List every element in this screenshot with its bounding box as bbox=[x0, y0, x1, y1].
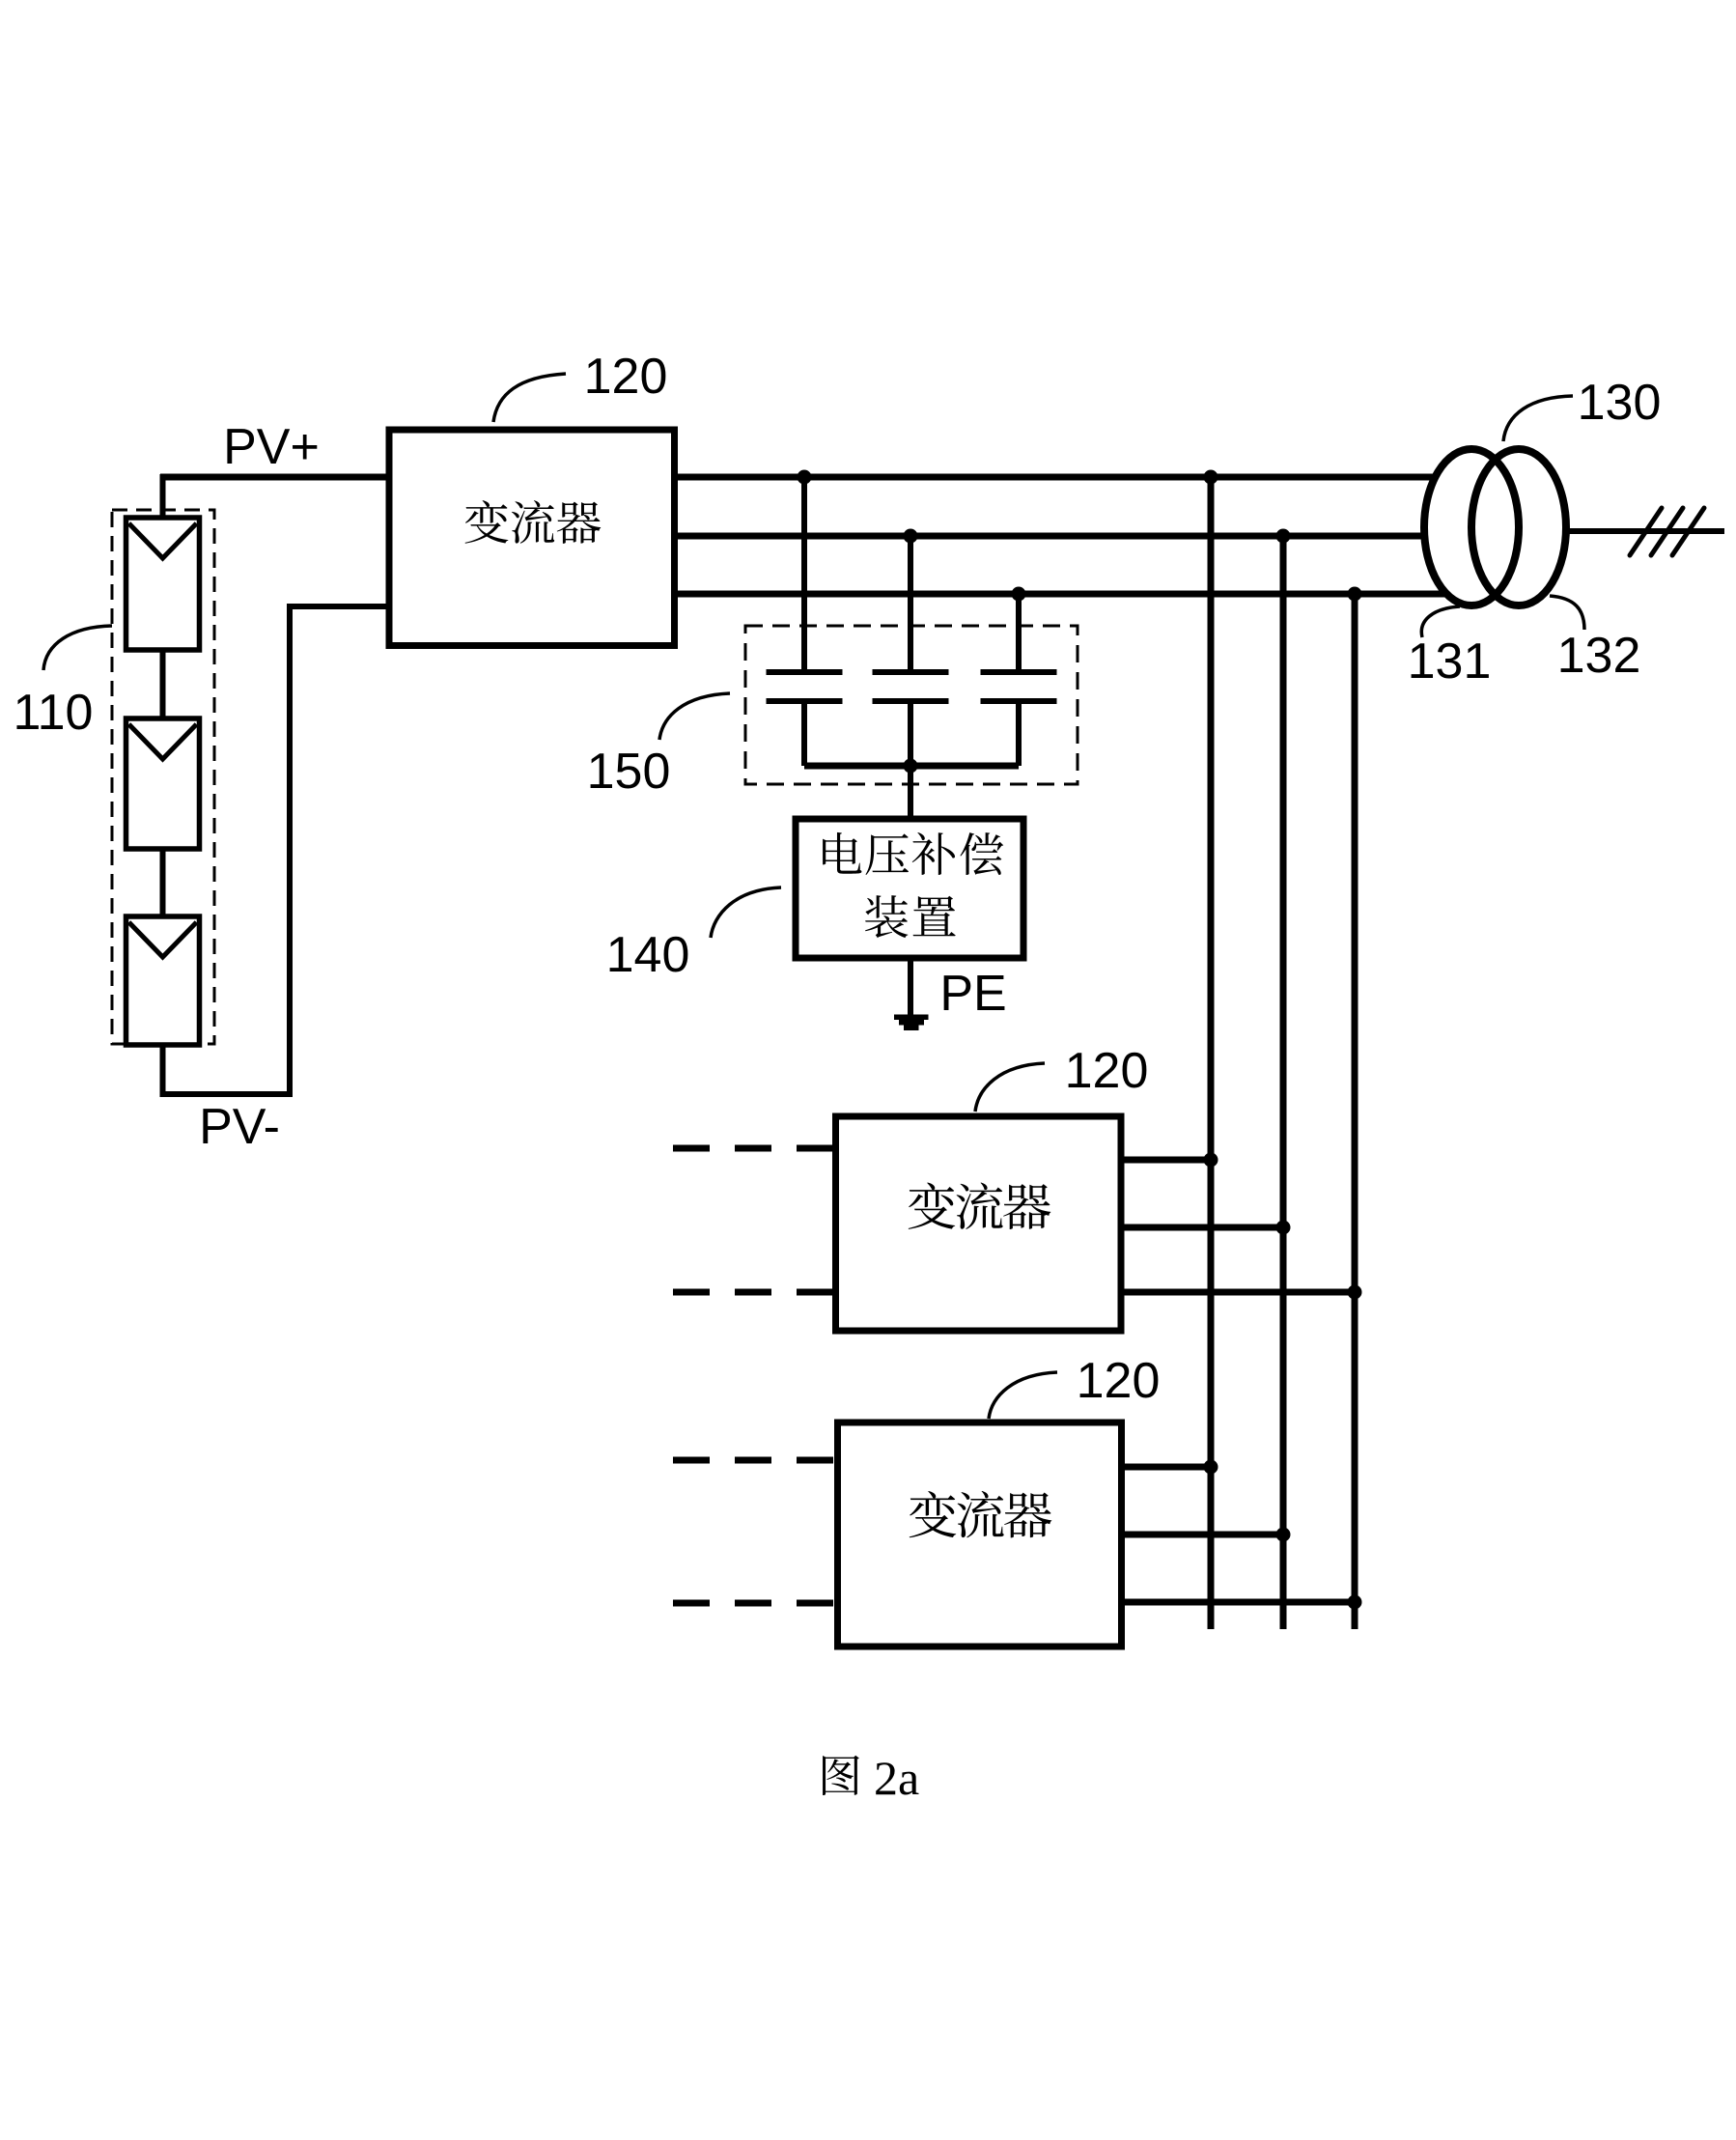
wire: grid output line after transformer bbox=[1519, 528, 1724, 534]
leader arc to label 120 (U2) bbox=[975, 1063, 1045, 1112]
converter U2 text 变流器 bbox=[909, 1183, 955, 1229]
transformer 130 secondary winding 132 bbox=[1471, 449, 1566, 605]
svg-text:130: 130 bbox=[1578, 375, 1662, 431]
caption 图 bbox=[823, 1756, 859, 1795]
voltage compensation device box 140 bbox=[796, 819, 1023, 958]
wire: capacitor C2 bottom lead bbox=[908, 701, 913, 766]
PV cell 2 chevron bbox=[129, 724, 197, 759]
leader arc to label 120 (U3) bbox=[989, 1372, 1057, 1419]
svg-text:PV+: PV+ bbox=[223, 419, 320, 475]
node junction dot 8 bbox=[1204, 1153, 1218, 1168]
node junction dot 4 bbox=[1204, 470, 1218, 485]
leader arc to label 110 bbox=[43, 626, 112, 670]
wire: capacitor common bottom bus bbox=[804, 763, 1019, 770]
leader arc to label 130 bbox=[1503, 396, 1573, 441]
svg-text:110: 110 bbox=[14, 685, 94, 741]
svg-text:120: 120 bbox=[1065, 1043, 1149, 1099]
grid triple-slash symbol bbox=[1630, 508, 1704, 555]
node junction dot 2 bbox=[904, 529, 918, 544]
node junction dot 12 bbox=[1276, 1528, 1291, 1542]
wire: converter3 output stub a bbox=[1120, 1464, 1211, 1471]
node junction dot 9 bbox=[1276, 1221, 1291, 1235]
PV cell 1 chevron bbox=[129, 523, 197, 558]
compensation device text line1 电压补偿 bbox=[823, 832, 861, 874]
node junction dot 6 bbox=[1348, 587, 1362, 602]
transformer 130 winding masks bbox=[1424, 449, 1519, 605]
node junction dot 3 bbox=[1012, 587, 1026, 602]
wire: PV string inter-cell link 2 bbox=[160, 849, 166, 916]
svg-text:150: 150 bbox=[587, 744, 671, 800]
converter U3 box (120) bbox=[838, 1422, 1122, 1647]
node junction dot 1 bbox=[798, 470, 812, 485]
wire: converter2 output stub c bbox=[1120, 1289, 1355, 1296]
wire: capacitor C1 top lead bbox=[801, 477, 807, 670]
PE ground symbol bbox=[894, 1015, 929, 1031]
wire: PE ground lead bbox=[908, 954, 913, 1015]
wire: converter3 dashed DC input 2 bbox=[673, 1600, 835, 1607]
svg-text:PE: PE bbox=[939, 966, 1006, 1022]
wire: converter3 output stub c bbox=[1120, 1599, 1355, 1606]
node junction dot 11 bbox=[1204, 1460, 1218, 1475]
wire: PV- return path bbox=[163, 606, 390, 1094]
PV cell 2 body bbox=[126, 718, 200, 849]
converter U2 box (120) bbox=[836, 1116, 1122, 1331]
leader arc to label 120 (U1) bbox=[493, 374, 566, 422]
svg-text:120: 120 bbox=[584, 349, 668, 405]
PV string 110 dashed outline bbox=[112, 510, 214, 1044]
transformer 130 primary winding 131 bbox=[1424, 449, 1519, 605]
wire: vertical bus V2 bbox=[1280, 536, 1287, 1629]
wire: AC bus line L1 (top phase) bbox=[160, 474, 1471, 481]
wire: converter3 output stub b bbox=[1120, 1532, 1283, 1538]
PV cell 1 body bbox=[126, 518, 200, 650]
converter U1 box (120) bbox=[389, 430, 675, 646]
leader arc to label 150 bbox=[659, 693, 730, 740]
leader arc to label 140 bbox=[711, 887, 781, 938]
wire: vertical bus V1 bbox=[1208, 477, 1215, 1629]
wire: vertical bus V3 bbox=[1352, 594, 1358, 1629]
node junction dot 10 bbox=[1348, 1285, 1362, 1300]
capacitor bank 150 dashed outline bbox=[745, 626, 1078, 784]
svg-text:140: 140 bbox=[606, 927, 690, 983]
wire: converter3 dashed DC input 1 bbox=[673, 1457, 835, 1464]
svg-text:132: 132 bbox=[1557, 628, 1641, 684]
node junction dot 5 bbox=[1276, 529, 1291, 544]
svg-text:131: 131 bbox=[1408, 634, 1492, 690]
PV cell 3 chevron bbox=[129, 922, 197, 957]
wire: capacitor C3 top lead bbox=[1016, 594, 1022, 670]
wire: converter2 dashed DC input 1 bbox=[673, 1145, 835, 1152]
wire: converter2 output stub a bbox=[1120, 1157, 1211, 1164]
wire: capacitor C3 bottom lead bbox=[1016, 701, 1022, 766]
converter U1 text 变流器 bbox=[465, 500, 509, 544]
leader arc to label 131 bbox=[1421, 606, 1460, 637]
leader arc to label 132 bbox=[1550, 596, 1584, 630]
wire: converter2 dashed DC input 2 bbox=[673, 1289, 835, 1296]
wire: PV+ lead from PV string top bbox=[160, 474, 166, 518]
wire: PV string inter-cell link 1 bbox=[160, 650, 166, 718]
wire: AC bus line L2 (middle phase) bbox=[671, 533, 1471, 540]
svg-text:2a: 2a bbox=[874, 1751, 919, 1805]
svg-text:120: 120 bbox=[1077, 1353, 1161, 1409]
wire: capacitor C2 top lead bbox=[908, 536, 913, 670]
compensation device text line2 装置 bbox=[865, 895, 908, 938]
PV cell 3 body bbox=[126, 916, 200, 1045]
node junction dot 7 bbox=[904, 759, 918, 774]
wire: link to voltage compensation device bbox=[908, 766, 913, 823]
svg-text:PV-: PV- bbox=[199, 1099, 280, 1155]
capacitor C2 plates bbox=[873, 672, 949, 701]
wire: converter2 output stub b bbox=[1120, 1225, 1283, 1231]
capacitor C1 plates bbox=[767, 672, 843, 701]
capacitor C3 plates bbox=[981, 672, 1057, 701]
converter U3 text 变流器 bbox=[910, 1491, 956, 1537]
wire: capacitor C1 bottom lead bbox=[801, 701, 807, 766]
node junction dot 13 bbox=[1348, 1595, 1362, 1610]
wire: AC bus line L3 (bottom phase) bbox=[671, 591, 1471, 598]
